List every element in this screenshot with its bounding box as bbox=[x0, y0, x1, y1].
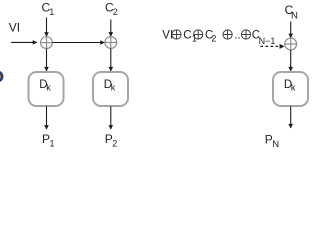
svg-text:k: k bbox=[111, 83, 116, 93]
svg-text:k: k bbox=[291, 83, 296, 93]
svg-text:N−1: N−1 bbox=[259, 36, 276, 46]
svg-text:..: .. bbox=[234, 29, 240, 41]
svg-text:2: 2 bbox=[112, 139, 117, 149]
svg-text:2: 2 bbox=[113, 7, 118, 17]
svg-text:N: N bbox=[272, 139, 279, 149]
svg-text:N: N bbox=[291, 10, 298, 21]
svg-text:k: k bbox=[46, 83, 51, 93]
svg-text:2: 2 bbox=[211, 34, 216, 44]
svg-text:C: C bbox=[183, 29, 191, 41]
svg-text:VI: VI bbox=[9, 20, 20, 34]
svg-text:1: 1 bbox=[49, 7, 54, 17]
svg-text:1: 1 bbox=[50, 139, 55, 149]
